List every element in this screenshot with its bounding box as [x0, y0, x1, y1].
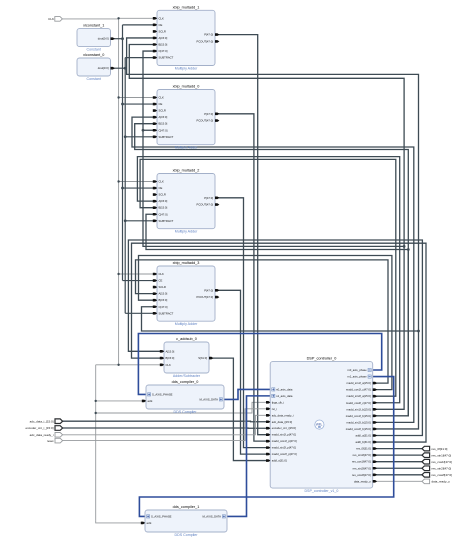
block xlconstant_1 (Constant) [77, 24, 111, 52]
pin fpga_clk_i of DSP_controller_0 [266, 400, 284, 404]
wire CLK branch to xbip_multadd_3 CLK [117, 273, 157, 275]
svg-text:CLK: CLK [166, 363, 172, 367]
svg-text:CLK: CLK [159, 180, 165, 184]
svg-text:SCLR: SCLR [159, 29, 166, 33]
wire CE branch to xbip_multadd_0 CE [121, 103, 157, 106]
pin aclk of dds_compiler_1 [141, 521, 152, 525]
wire xbip_multadd_1 P to DSP madd_sin1f_p [215, 35, 270, 435]
wire SUBTRACT branch to xbip_multadd_2 [124, 219, 157, 222]
pin P[47:0] of xbip_multadd_2 [204, 196, 219, 200]
output port res_cos1f[47:0] [422, 459, 452, 464]
pin dout[0:0] of xlconstant_1 [98, 37, 115, 41]
wire DSP res_sin1f to output port [373, 454, 422, 456]
wire net madd_cos1f_c to xbip_multadd_1 C and xbip_multadd_0 C [142, 51, 406, 248]
svg-text:aclk: aclk [147, 521, 153, 525]
svg-text:SCLR: SCLR [159, 109, 166, 113]
svg-text:PCOUT[47:0]: PCOUT[47:0] [196, 203, 213, 207]
svg-text:C[47:0]: C[47:0] [159, 49, 168, 53]
wire SUBTRACT branch to xbip_multadd_3 [125, 312, 157, 314]
svg-text:madd_cos2f_p[47:0]: madd_cos2f_p[47:0] [272, 452, 297, 456]
svg-text:DSP_controller_v1_0: DSP_controller_v1_0 [304, 489, 338, 493]
svg-text:m1_axis_phase: m1_axis_phase [347, 375, 367, 379]
wire net madd_cos1f_b to xbip_multadd_2 C [146, 214, 408, 416]
svg-text:C[47:0]: C[47:0] [159, 212, 168, 216]
pin res_0f[31:0] of DSP_controller_0 [356, 447, 377, 451]
svg-text:madd_sin2f_p[47:0]: madd_sin2f_p[47:0] [272, 446, 296, 450]
svg-text:CLK: CLK [159, 96, 165, 100]
svg-text:P[47:0]: P[47:0] [204, 112, 213, 116]
svg-text:P[47:0]: P[47:0] [204, 196, 213, 200]
svg-text:S_AXIS_PHASE: S_AXIS_PHASE [151, 514, 172, 518]
input port reset [47, 438, 63, 443]
block xbip_multadd_0 (Multiply Adder) [157, 85, 215, 150]
pin M_AXIS_DATA of dds_compiler_0 [199, 397, 222, 401]
svg-text:adc_data_i_[15:0]: adc_data_i_[15:0] [30, 419, 54, 423]
pin S[31:0] of c_addsub_0 [198, 356, 213, 360]
pin res_cos2f[47:0] of DSP_controller_0 [352, 473, 377, 477]
pin S_AXIS_PHASE of dds_compiler_0 [148, 392, 173, 396]
svg-text:B[15:0]: B[15:0] [166, 356, 175, 360]
wire axis dds_compiler_1 M_AXIS_DATA to DSP s1_axis_data [227, 396, 270, 517]
svg-text:res_sin2f[47:0]: res_sin2f[47:0] [353, 466, 371, 470]
svg-text:madd_sin1f_a[15:0]: madd_sin1f_a[15:0] [347, 381, 371, 385]
svg-text:CLK: CLK [159, 272, 165, 276]
pin PCOUT[47:0] of xbip_multadd_1 [196, 39, 219, 43]
wire xbip_multadd_3 P to DSP madd_cos2f_p [215, 290, 270, 454]
svg-text:fpga_clk_i: fpga_clk_i [272, 400, 285, 404]
svg-text:SCLR: SCLR [159, 285, 166, 289]
svg-text:res_cos2f[47:0]: res_cos2f[47:0] [352, 473, 371, 477]
svg-text:SUBTRACT: SUBTRACT [159, 135, 174, 139]
wire DSP res_0f to output port [373, 448, 422, 450]
svg-text:dout[0:0]: dout[0:0] [98, 66, 109, 70]
wire DSP res_cos1f to output port [373, 461, 422, 463]
pin A[15:0] of xbip_multadd_0 [153, 115, 168, 119]
svg-text:madd_cos2f_c[47:0]: madd_cos2f_c[47:0] [346, 401, 371, 405]
svg-text:addl_a[31:0]: addl_a[31:0] [356, 434, 371, 438]
wire CLK branch to c_addsub_0 CLK [117, 364, 164, 366]
block xlconstant_0 (Constant) [77, 53, 111, 81]
pin SUBTRACT of xbip_multadd_0 [153, 135, 174, 139]
svg-text:S[31:0]: S[31:0] [198, 356, 207, 360]
wire DSP res_cos2f to output port [373, 474, 422, 476]
pin P[47:0] of xbip_multadd_3 [204, 288, 219, 292]
svg-text:aclk: aclk [148, 399, 154, 403]
svg-text:adc_data_i[15:0]: adc_data_i[15:0] [272, 420, 293, 424]
svg-text:PCOUT[47:0]: PCOUT[47:0] [196, 39, 213, 43]
pin B[15:0] of xbip_multadd_1 [153, 43, 168, 47]
svg-text:dout[0:0]: dout[0:0] [98, 37, 109, 41]
wire net addl_a to c_addsub_0 A [128, 240, 422, 436]
svg-text:CLK: CLK [159, 16, 165, 20]
pin adc_data_i[15:0] of DSP_controller_0 [266, 420, 292, 424]
pin res_sin1f[47:0] of DSP_controller_0 [353, 453, 377, 457]
pin SCLR of xbip_multadd_1 [153, 29, 166, 33]
wire xbip_multadd_0 P to DSP madd_cos1f_p [215, 114, 270, 441]
pin C[47:0] of xbip_multadd_2 [153, 212, 168, 216]
svg-text:c_addsub_0: c_addsub_0 [176, 337, 197, 341]
output port data_ready_o [422, 479, 450, 484]
pin CE of xbip_multadd_3 [153, 279, 163, 283]
svg-text:CE: CE [159, 102, 163, 106]
svg-text:CE: CE [159, 279, 163, 283]
block xbip_multadd_1 (Multiply Adder) [157, 5, 215, 70]
wire CLK branch to xbip_multadd_1 CLK [117, 17, 157, 19]
svg-text:Constant: Constant [87, 77, 101, 81]
block dds_compiler_0 (DDS Compiler) [146, 380, 224, 414]
wire CE branch to xbip_multadd_1 CE [123, 24, 158, 26]
svg-text:CLK: CLK [48, 17, 54, 21]
svg-text:res_0f[31:0]: res_0f[31:0] [356, 447, 371, 451]
wire CLK branch to xbip_multadd_2 CLK [117, 180, 157, 182]
output port res_sin1f[47:0] [422, 453, 451, 458]
pin CLK of xbip_multadd_3 [153, 272, 164, 276]
svg-text:M_AXIS_DATA: M_AXIS_DATA [202, 514, 221, 518]
pin PCOUT[47:0] of xbip_multadd_3 [196, 295, 219, 299]
svg-text:A[15:0]: A[15:0] [166, 349, 175, 353]
svg-text:xbip_multadd_0: xbip_multadd_0 [173, 85, 200, 89]
svg-text:Multiply Adder: Multiply Adder [175, 230, 198, 234]
pin madd_sin2f_p[47:0] of DSP_controller_0 [266, 446, 296, 450]
svg-text:DDS Compiler: DDS Compiler [175, 533, 199, 537]
pin madd_sin1f_a[15:0] of DSP_controller_0 [347, 381, 378, 385]
svg-text:madd_cos2f_b[15:0]: madd_cos2f_b[15:0] [346, 427, 371, 431]
pin madd_cos1f_c[47:0] of DSP_controller_0 [346, 388, 377, 392]
wire net madd_cos2f_c to xbip_multadd_2 A [137, 157, 399, 403]
wire net madd_cos2f_b to xbip_multadd_1 A [127, 38, 419, 429]
svg-text:data_ready_o: data_ready_o [432, 480, 451, 484]
svg-text:s0_axis_data: s0_axis_data [276, 387, 293, 391]
svg-text:addl_s[31:0]: addl_s[31:0] [272, 459, 287, 463]
wire SUBTRACT net from xlconstant_0 dout [111, 58, 127, 314]
svg-text:C[47:0]: C[47:0] [159, 305, 168, 309]
svg-text:B[15:0]: B[15:0] [159, 298, 168, 302]
pin s1_axis_data of DSP_controller_0 [272, 394, 293, 398]
wire reset to DSP rst_i [63, 409, 271, 441]
pin madd_cos1f_p[47:0] of DSP_controller_0 [266, 439, 297, 443]
wire CLK branch to dds_compiler_0 aclk [95, 400, 147, 402]
svg-text:DDS Compiler: DDS Compiler [174, 410, 198, 414]
svg-text:madd_sin1f_b[15:0]: madd_sin1f_b[15:0] [347, 407, 371, 411]
svg-text:SUBTRACT: SUBTRACT [159, 219, 174, 223]
pin C[47:0] of xbip_multadd_1 [153, 49, 168, 53]
wire net madd_sin2f_a to xbip_multadd_2 B [140, 159, 396, 396]
output port res_sin2f[47:0] [422, 466, 451, 471]
svg-text:DSP_controller_0: DSP_controller_0 [307, 357, 337, 361]
svg-text:madd_sin2f_b[15:0]: madd_sin2f_b[15:0] [347, 420, 371, 424]
svg-text:P[47:0]: P[47:0] [204, 33, 213, 37]
pin A[15:0] of xbip_multadd_1 [153, 36, 168, 40]
block dds_compiler_1 (DDS Compiler) [145, 505, 227, 537]
input port CLK [48, 17, 62, 22]
pin CE of xbip_multadd_2 [153, 186, 163, 190]
pin res_cos1f[47:0] of DSP_controller_0 [352, 460, 377, 464]
pin s0_axis_data of DSP_controller_0 [272, 387, 293, 391]
pin addl_s[31:0] of DSP_controller_0 [266, 459, 287, 463]
wire axis m1_axis_phase to dds_compiler_1 S_AXIS_PHASE [139, 377, 393, 517]
pin CE of xbip_multadd_0 [153, 102, 163, 106]
wire net madd_cos1f_b branch to xbip_multadd_0 B [135, 124, 410, 416]
svg-text:SUBTRACT: SUBTRACT [159, 311, 174, 315]
pin madd_sin2f_b[15:0] of DSP_controller_0 [347, 420, 378, 424]
pin A[15:0] of xbip_multadd_3 [153, 292, 168, 296]
svg-text:A[15:0]: A[15:0] [159, 199, 168, 203]
svg-text:adc_data_ready_i: adc_data_ready_i [272, 413, 294, 417]
svg-text:S_AXIS_PHASE: S_AXIS_PHASE [152, 392, 173, 396]
svg-text:xbip_multadd_2: xbip_multadd_2 [173, 169, 200, 173]
svg-text:B[15:0]: B[15:0] [159, 43, 168, 47]
pin addl_b[31:0] of DSP_controller_0 [356, 440, 378, 444]
wire CLK branch to DSP fpga_clk_i [95, 402, 271, 414]
wire xbip_multadd_2 P to DSP madd_sin2f_p [215, 198, 270, 448]
svg-text:res_cos1f[47:0]: res_cos1f[47:0] [432, 460, 453, 464]
pin rst_i of DSP_controller_0 [266, 407, 277, 411]
pin SUBTRACT of xbip_multadd_2 [153, 219, 174, 223]
pin SCLR of xbip_multadd_3 [153, 285, 166, 289]
svg-text:Multiply Adder: Multiply Adder [175, 322, 198, 326]
svg-text:res_0f[31:0]: res_0f[31:0] [432, 447, 448, 451]
svg-text:madd_cos1f_p[47:0]: madd_cos1f_p[47:0] [272, 439, 297, 443]
output port res_cos2f[47:0] [422, 473, 452, 478]
svg-text:xbip_multadd_3: xbip_multadd_3 [173, 261, 200, 265]
svg-text:res_sin2f[47:0]: res_sin2f[47:0] [432, 466, 452, 470]
input port encoder_cnt_i[15:0] [25, 426, 62, 431]
pin data_ready_o of DSP_controller_0 [354, 479, 377, 483]
svg-text:B[15:0]: B[15:0] [159, 122, 168, 126]
wire DSP data_ready_o to output port [373, 480, 422, 482]
svg-text:res_cos1f[47:0]: res_cos1f[47:0] [352, 460, 371, 464]
svg-text:rst_i: rst_i [272, 407, 278, 411]
wire net madd_sin1f_a to xbip_multadd_3 A [136, 260, 389, 383]
pin B[15:0] of xbip_multadd_2 [153, 206, 168, 210]
pin B[15:0] of c_addsub_0 [160, 356, 175, 360]
pin SUBTRACT of xbip_multadd_1 [153, 56, 174, 60]
svg-text:A[15:0]: A[15:0] [159, 292, 168, 296]
svg-text:madd_cos1f_c[47:0]: madd_cos1f_c[47:0] [346, 388, 371, 392]
svg-text:dds_compiler_0: dds_compiler_0 [172, 380, 199, 384]
block c_addsub_0 (Adder/Subtracter) [164, 337, 209, 378]
svg-text:res_sin1f[47:0]: res_sin1f[47:0] [432, 453, 452, 457]
pin PCOUT[47:0] of xbip_multadd_0 [196, 119, 219, 123]
block xbip_multadd_2 (Multiply Adder) [157, 169, 215, 234]
svg-text:madd_cos1f_b[15:0]: madd_cos1f_b[15:0] [346, 414, 371, 418]
RTL badge of DSP_controller_0 [315, 420, 324, 429]
pin CLK of xbip_multadd_1 [153, 16, 164, 20]
pin C[47:0] of xbip_multadd_0 [153, 128, 168, 132]
pin C[47:0] of xbip_multadd_3 [153, 305, 168, 309]
pin S_AXIS_PHASE of dds_compiler_1 [147, 514, 172, 518]
pin madd_sin1f_p[47:0] of DSP_controller_0 [266, 433, 296, 437]
pin A[15:0] of c_addsub_0 [160, 349, 175, 353]
svg-text:SCLR: SCLR [159, 193, 166, 197]
wire axis dds_compiler_0 M_AXIS_DATA to DSP s0_axis_data [224, 389, 270, 399]
wire CE branch to xbip_multadd_2 CE [121, 187, 157, 190]
svg-text:s1_axis_data: s1_axis_data [276, 394, 293, 398]
wire net addl_b to c_addsub_0 B [132, 243, 427, 442]
wire net madd_sin1f_b to xbip_multadd_1 B [129, 45, 404, 410]
wire CLK branch to xbip_multadd_0 CLK [117, 96, 157, 98]
wire axis m0_axis_phase to dds_compiler_0 S_AXIS_PHASE [138, 334, 381, 395]
pin madd_sin2f_a[15:0] of DSP_controller_0 [347, 394, 378, 398]
pin madd_cos2f_p[47:0] of DSP_controller_0 [266, 452, 297, 456]
wire CE branch to xbip_multadd_3 CE [123, 280, 158, 282]
svg-text:madd_sin1f_p[47:0]: madd_sin1f_p[47:0] [272, 433, 296, 437]
svg-text:m0_axis_phase: m0_axis_phase [347, 368, 367, 372]
wire adc_data_ready_i to DSP [63, 415, 271, 435]
wire SUBTRACT branch to xbip_multadd_1 [125, 57, 157, 59]
pin addl_a[31:0] of DSP_controller_0 [356, 434, 378, 438]
svg-text:A[15:0]: A[15:0] [159, 36, 168, 40]
svg-text:xlconstant_0: xlconstant_0 [83, 53, 104, 57]
pin P[47:0] of xbip_multadd_1 [204, 33, 219, 37]
output port res_0f[31:0] [422, 446, 448, 451]
svg-text:P[47:0]: P[47:0] [204, 288, 213, 292]
input port adc_data_i[15:0] [30, 419, 63, 424]
svg-text:PCOUT[47:0]: PCOUT[47:0] [196, 295, 213, 299]
wire c_addsub_0 S to DSP addl_s [209, 358, 270, 460]
wire SUBTRACT branch to xbip_multadd_0 [124, 135, 157, 138]
svg-text:Constant: Constant [87, 47, 101, 51]
svg-text:C[47:0]: C[47:0] [159, 128, 168, 132]
svg-text:RTL: RTL [316, 422, 322, 426]
svg-text:addl_b[31:0]: addl_b[31:0] [356, 440, 371, 444]
svg-text:encoder_cnt_i_[15:0]: encoder_cnt_i_[15:0] [25, 426, 53, 430]
svg-text:Multiply Adder: Multiply Adder [175, 146, 198, 150]
block xbip_multadd_3 (Multiply Adder) [157, 261, 215, 326]
pin res_sin2f[47:0] of DSP_controller_0 [353, 466, 377, 470]
svg-text:encoder_cnt_i[15:0]: encoder_cnt_i[15:0] [272, 426, 296, 430]
pin CLK of xbip_multadd_0 [153, 96, 164, 100]
pin m1_axis_phase of DSP_controller_0 [347, 375, 371, 379]
svg-text:data_ready_o: data_ready_o [354, 479, 371, 483]
pin M_AXIS_DATA of dds_compiler_1 [202, 514, 225, 518]
pin B[15:0] of xbip_multadd_0 [153, 122, 168, 126]
wire encoder_cnt_i to DSP [63, 427, 271, 429]
pin A[15:0] of xbip_multadd_2 [153, 199, 168, 203]
pin madd_cos2f_b[15:0] of DSP_controller_0 [346, 427, 377, 431]
svg-text:Adder/Subtracter: Adder/Subtracter [173, 374, 201, 378]
pin dout[0:0] of xlconstant_0 [98, 66, 115, 70]
wire CLK net trunk [62, 19, 118, 521]
pin PCOUT[47:0] of xbip_multadd_2 [196, 203, 219, 207]
pin SCLR of xbip_multadd_2 [153, 193, 166, 197]
pin SUBTRACT of xbip_multadd_3 [153, 311, 174, 315]
pin madd_cos2f_c[47:0] of DSP_controller_0 [346, 401, 377, 405]
svg-text:CE: CE [159, 186, 163, 190]
pin CLK of xbip_multadd_2 [153, 180, 164, 184]
svg-text:B[15:0]: B[15:0] [159, 206, 168, 210]
pin SCLR of xbip_multadd_0 [153, 109, 166, 113]
svg-text:Multiply Adder: Multiply Adder [175, 66, 198, 70]
wire DSP res_sin2f to output port [373, 467, 422, 469]
svg-text:res_cos2f[47:0]: res_cos2f[47:0] [432, 473, 453, 477]
wire net madd_sin2f_b to xbip_multadd_0 A [132, 117, 414, 422]
wire net madd_cos1f_c2 to xbip_multadd_3 B [139, 256, 392, 390]
svg-text:res_sin1f[47:0]: res_sin1f[47:0] [353, 453, 371, 457]
pin aclk of dds_compiler_0 [142, 399, 153, 403]
pin m0_axis_phase of DSP_controller_0 [347, 368, 371, 372]
svg-text:M_AXIS_DATA: M_AXIS_DATA [199, 397, 218, 401]
pin madd_sin1f_b[15:0] of DSP_controller_0 [347, 407, 378, 411]
pin adc_data_ready_i of DSP_controller_0 [266, 413, 294, 417]
pin B[15:0] of xbip_multadd_3 [153, 298, 168, 302]
pin CLK of c_addsub_0 [160, 363, 171, 367]
svg-text:adc_data_ready_i: adc_data_ready_i [30, 433, 54, 437]
svg-text:SUBTRACT: SUBTRACT [159, 56, 174, 60]
svg-text:CE: CE [159, 23, 163, 27]
svg-text:A[15:0]: A[15:0] [159, 115, 168, 119]
pin encoder_cnt_i[15:0] of DSP_controller_0 [266, 426, 296, 430]
wire net madd C to xbip_multadd_3 C [142, 307, 420, 333]
svg-text:PCOUT[47:0]: PCOUT[47:0] [196, 119, 213, 123]
svg-text:dds_compiler_1: dds_compiler_1 [173, 505, 200, 509]
svg-text:xbip_multadd_1: xbip_multadd_1 [173, 5, 200, 9]
wire CLK branch to dds_compiler_1 aclk [96, 521, 145, 523]
pin madd_cos1f_b[15:0] of DSP_controller_0 [346, 414, 377, 418]
pin CE of xbip_multadd_1 [153, 23, 163, 27]
block DSP_controller_0 (DSP_controller_v1_0) [270, 357, 373, 493]
svg-text:xlconstant_1: xlconstant_1 [83, 24, 104, 28]
input port adc_data_ready_i [30, 433, 63, 438]
wire adc_data_i to DSP [63, 420, 271, 423]
svg-text:reset: reset [47, 439, 54, 443]
svg-text:madd_sin2f_a[15:0]: madd_sin2f_a[15:0] [347, 394, 371, 398]
wire CE net from xlconstant_1 dout [111, 25, 124, 281]
pin P[47:0] of xbip_multadd_0 [204, 112, 219, 116]
